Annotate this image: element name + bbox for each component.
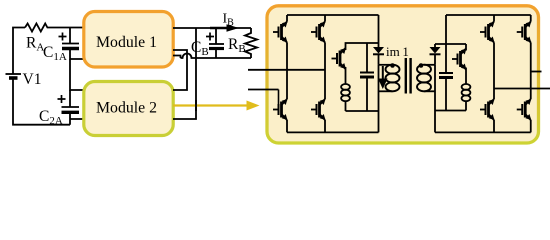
mosfet Q6 (right clamp) [452,49,467,70]
leg1 vertical [286,15,288,132]
left port stub 1 / leg tie rail [248,69,325,71]
wire: Module1 rail stub to CB/RB bottom rail with hop over link bus [173,54,251,59]
wire: top-left loop [13,28,25,75]
battery V1 [6,74,22,78]
svg-text:V1: V1 [23,71,42,88]
mosfet Q9 (bottom leg3) [480,99,495,120]
top rail right [446,14,531,16]
svg-text:RA: RA [26,35,44,54]
polarity dot secondary [419,63,424,68]
primary winding [379,64,393,66]
mosfet Q3 (bottom leg1) [273,99,288,120]
primary bottom vertical [378,65,380,133]
leg3 vertical [493,15,495,132]
bottom rail left [287,131,379,133]
wire: series bus over arrow [195,100,197,111]
mosfet Q5 (left clamp) [332,48,347,69]
mosfet Q2 (top leg2) [311,22,326,43]
svg-text:C2A: C2A [39,108,63,127]
left port stub 2 [248,89,279,91]
mosfet Q10 (bottom leg4) [517,99,532,120]
inductor L1 (left clamp) [341,67,350,111]
svg-text:Module 1: Module 1 [96,34,157,51]
mosfet Q7 (top leg3) [480,22,495,43]
detail box frame [267,6,539,143]
yellow arrow from Module 2 to detail box [173,101,260,111]
diode D1 [373,47,384,65]
secondary bottom vertical [434,65,436,133]
wire: V1 bottom to bottom rail [13,78,70,125]
inductor L2 (right clamp) [462,68,471,111]
wire: RA to Module 1 left [50,27,85,29]
svg-text:im 1: im 1 [386,44,409,59]
core [405,58,407,94]
wire: C1A bottom to Module1 lower-left stub [70,49,85,60]
wire: node down to Module2 upper-left stub [70,59,85,90]
capacitor C2 (right clamp) [439,44,453,111]
primary riser [378,15,380,47]
capacitor CB [206,28,224,58]
mosfet Q1 (top leg1) [273,22,288,43]
clamp bottom wire left [346,110,379,112]
svg-text:IB: IB [223,12,235,29]
clamp rail right [435,43,466,45]
gate feed vertical [278,90,280,110]
leg tie rail right / port stub [494,88,550,90]
svg-text:Module 2: Module 2 [96,100,157,117]
capacitor C1 (left clamp) [360,43,374,111]
polarity dot primary [390,63,395,68]
wire: series bus (module2 lower-right up to top rail) [173,28,196,119]
wire: C2A bottom to Module2 lower-left stub and bottom rail [70,112,85,124]
mosfet Q8 (top leg4) [517,22,532,43]
Module 1 box [84,12,173,68]
current arrow IB [210,24,239,32]
top rail left [287,14,379,16]
secondary winding [424,64,435,66]
svg-text:RB: RB [228,36,246,55]
capacitor C1A [59,28,80,49]
clamp rail left [346,43,379,50]
wire: Module1 lower-right stub to link bus down to Module2 upper-right stub [173,50,187,90]
magnetizing current arrow [378,66,388,89]
resistor RA (zigzag) [25,24,50,32]
Module 2 box [84,82,173,136]
riser right [445,15,447,44]
svg-text:CB: CB [191,39,209,58]
transformer T1 [379,58,436,132]
bottom rail right [435,131,531,133]
clamp bottom wire right [435,110,466,112]
wire: Module1 upper-right stub and top rail [173,27,251,29]
leg4 vertical [530,15,532,132]
mosfet Q4 (bottom leg2) [311,99,326,120]
leg2 vertical [324,15,326,132]
right port stub [531,71,542,73]
resistor RB (vertical zigzag) [245,28,257,58]
secondary riser and diode D2 [430,44,441,65]
right clamp drain wire [465,44,467,51]
capacitor C2A [58,90,80,112]
